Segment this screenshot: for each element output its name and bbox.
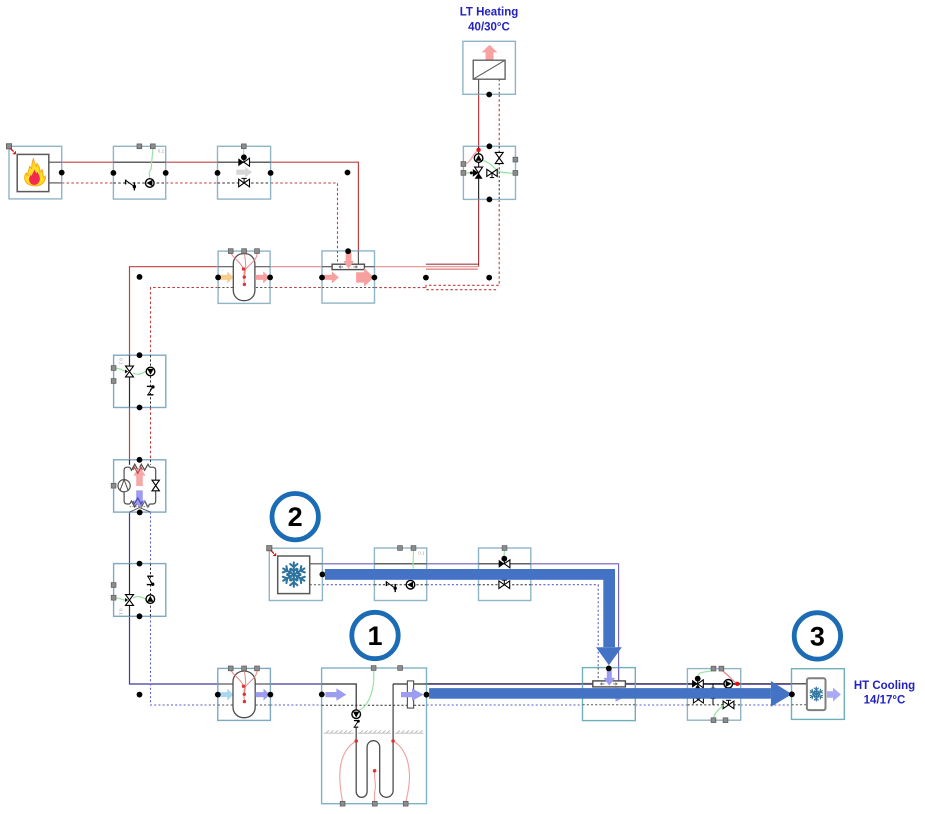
big pink outlet arrow	[356, 268, 374, 287]
thick chilled band horizontal (ground box to HT)	[429, 688, 771, 699]
boiler unit box	[9, 146, 62, 199]
flow switch on hot return	[147, 386, 154, 394]
wire: chiller return dashed valve box to drop into collector	[531, 585, 598, 668]
callout circle 1	[352, 612, 398, 658]
wire: chiller return dashed chiller to pump box	[322, 584, 374, 586]
big gray flow arrow	[236, 167, 252, 177]
wire: left riser supply between valve box and heat pump	[129, 408, 131, 460]
light blue inlet arrow	[219, 689, 233, 701]
HT snowflake	[809, 687, 823, 701]
tank sensor curves (red)	[231, 252, 257, 283]
node left of tank	[137, 274, 143, 280]
heat pump refrigerant loop	[124, 464, 156, 507]
chiller unit box	[269, 548, 322, 600]
bypass butterfly valve (LT)	[487, 169, 497, 177]
three-way mixing valve (LT supply)	[470, 167, 483, 179]
borehole U-tube	[356, 684, 393, 797]
green control squiggle top	[698, 670, 714, 679]
LT heating pink up arrow	[482, 45, 498, 60]
wire: LT supply horizontal pink run from distributor	[375, 266, 479, 268]
cold tank vessel	[233, 671, 255, 718]
cold buffer tank box	[218, 668, 271, 720]
violet flow arrow 2 (ground box out)	[401, 688, 424, 700]
pump P1 (boiler return, flow left)	[146, 179, 155, 188]
violet outlet arrow	[256, 689, 270, 701]
wire: bottom return dashed collector to valve box	[635, 704, 687, 706]
violet pass-through arrow (mostly hidden by band)	[600, 687, 630, 701]
cooling valve/pump group box	[687, 669, 740, 721]
thick chilled band horizontal (chiller to drop)	[325, 569, 615, 580]
cooling collector box	[583, 668, 636, 721]
balancing valve chilled return	[499, 580, 510, 588]
LT Heating consumer box	[463, 41, 516, 94]
svg-text:0.1: 0.1	[119, 609, 124, 616]
flow switch symbol (boiler return)	[126, 180, 135, 191]
distributor header bar	[332, 264, 364, 269]
svg-text:2: 2	[288, 502, 303, 532]
V connection to risers	[130, 508, 151, 512]
ground sensor dots	[354, 739, 358, 743]
nodes hot box top/bottom	[137, 352, 143, 358]
svg-text:1: 1	[367, 621, 382, 651]
thick band right arrowhead	[771, 681, 792, 707]
LT circulation pump (flow up)	[474, 154, 483, 163]
node under radiator	[486, 92, 492, 98]
T fitting mark lower	[711, 699, 715, 705]
green control squiggles LT box	[483, 161, 515, 174]
handle heat pump	[111, 483, 116, 488]
wire: tank to distributor supply	[270, 266, 322, 268]
nodes ground box edges	[319, 692, 325, 698]
control valve V1 (supply)	[238, 158, 249, 166]
nodes on LT feed run	[423, 275, 429, 281]
wire: chiller supply purple chiller to pump box	[322, 563, 374, 565]
node mid-run right of valve box	[345, 170, 351, 176]
three-way valve cooling supply	[692, 676, 703, 691]
callout circle 3	[794, 613, 840, 659]
handle chiller valve box	[502, 546, 507, 551]
flow switch chiller return	[386, 581, 395, 592]
node at right arrow tip	[789, 691, 795, 697]
control line to pump (green)	[149, 148, 153, 180]
node at boiler outlet	[59, 170, 65, 176]
heat pump top stubs	[129, 460, 131, 465]
defrost dotted mark	[130, 506, 150, 508]
ground loop pump (flow down)	[352, 710, 361, 719]
shutoff valve on LT return	[495, 152, 503, 163]
HT cooling consumer box	[792, 669, 845, 720]
nodes LT pump box	[487, 143, 493, 149]
wire: bottom supply tank to ground box	[270, 683, 321, 685]
LT pump group box	[463, 146, 515, 199]
cold tank sensor curves	[231, 670, 257, 701]
wire: chiller supply purple valve box to drop into collector	[531, 564, 619, 681]
small pink branch arrow	[324, 271, 339, 283]
control valve chilled supply	[499, 560, 510, 568]
svg-text:14/17°C: 14/17°C	[864, 695, 906, 707]
condenser arrow (pink up)	[133, 467, 145, 487]
boiler corner marker with red arrow	[6, 144, 16, 155]
inline measuring element	[407, 681, 413, 708]
bypass valve under band	[693, 695, 703, 703]
cold tank top handles	[228, 666, 233, 671]
wire: boiler return dashed valve box to drop, down into distributor	[271, 183, 338, 251]
wire: boiler return top row dashed (boiler to pump box)	[62, 182, 114, 184]
chiller valve group box	[479, 548, 531, 601]
green stub chiller control valve	[503, 549, 505, 559]
collector header bar	[593, 681, 626, 687]
handles left edge	[111, 366, 116, 371]
ground box top handles	[371, 666, 376, 671]
wire: chiller return dashed pump box to valve box	[427, 584, 479, 586]
nodes at pump box edges	[111, 170, 117, 176]
violet feed arrow into collector	[603, 670, 615, 686]
soil hatch lines	[324, 730, 424, 733]
wire: boiler return dashed (pump box to valve box)	[166, 182, 218, 184]
handle on valve box	[241, 144, 246, 149]
handles chiller pump box	[398, 546, 403, 551]
wire: boiler supply between pump and valve boxes	[166, 161, 218, 163]
wire: chilled supply purple run ground box to collector	[427, 684, 593, 686]
wire: cold return dashed corner to bottom tank	[151, 616, 218, 705]
nodes cold tank edges	[215, 692, 221, 698]
wire: bottom return dashed ground box to collector	[427, 704, 583, 706]
wire: LT return drop dashed	[426, 199, 499, 285]
pump on cold return (flow up)	[146, 595, 155, 604]
wire: LT supply second pink run	[426, 268, 478, 270]
violet flow arrow 1 (ground box in)	[325, 688, 346, 700]
node at arrow tip on collector	[606, 666, 612, 672]
svg-text:0.1: 0.1	[158, 149, 165, 154]
flow switch cold return	[147, 576, 154, 584]
pump on hot return (flow down)	[146, 367, 155, 376]
pink control squiggle	[463, 151, 478, 165]
valve group box (boiler circuit)	[218, 146, 271, 199]
expansion valve	[152, 480, 159, 491]
hot buffer tank box	[218, 251, 270, 303]
hot tank vessel	[233, 254, 255, 301]
nodes heat pump top/bottom	[137, 457, 143, 463]
evaporator arrow (violet down)	[133, 490, 145, 507]
wire: boiler supply valve box to drop corner, down into distributor	[271, 162, 359, 251]
chiller corner marker with red arrow	[267, 546, 277, 557]
heating distributor box	[322, 251, 375, 303]
heat pump box	[114, 460, 166, 512]
nodes at distributor edges	[319, 275, 325, 281]
wire: boiler supply top row (hot, red)	[62, 161, 114, 163]
svg-text:0.1: 0.1	[418, 550, 425, 555]
wire: hot return tank to left riser corner dashed	[151, 288, 219, 356]
pink feed arrow into distributor	[343, 252, 354, 269]
green control squiggle bottom	[714, 705, 724, 719]
wire: cold return dashed heat pump to lower box	[150, 512, 152, 564]
chiller pump group box	[374, 548, 426, 601]
radiator symbol	[473, 60, 505, 79]
wire: LT supply horizontal dark upper run	[426, 263, 479, 265]
wire: chilled supply purple run collector to HT box	[625, 684, 791, 686]
wire: cold supply heat pump down to lower box (navy)	[129, 512, 131, 564]
wire: LT heating supply drop (pump group down to header level)	[478, 199, 480, 266]
cold side valve/pump box	[114, 564, 166, 617]
wire: LT return dashed to distributor	[375, 287, 426, 289]
callout circle 2	[272, 494, 318, 540]
red node on LT supply	[476, 148, 480, 152]
nodes cold box	[137, 561, 143, 567]
wire: cold supply down-left corner to bottom tank	[130, 616, 218, 684]
wire: left riser return dashed between valve box and heat pump	[150, 408, 152, 460]
red control squiggle to pump	[721, 670, 737, 684]
thick chilled band vertical drop	[603, 569, 615, 647]
orange inlet arrow	[219, 271, 233, 283]
ground box bottom handles	[340, 801, 345, 806]
node at chiller outlet	[320, 572, 326, 578]
svg-text:HT Cooling: HT Cooling	[854, 680, 915, 692]
wire: LT return dashed lower duplicate	[426, 285, 498, 289]
node left of cold tank	[137, 692, 143, 698]
T fitting mark	[711, 684, 715, 688]
tank sensor dots	[242, 267, 245, 270]
chiller snowflake	[281, 562, 306, 586]
node above control valve	[241, 154, 247, 160]
green control drop chiller pump	[412, 549, 414, 568]
shutoff valve on hot supply riser	[125, 366, 133, 377]
wire: tank to distributor return dashed	[270, 287, 322, 289]
flow switch under ground pump	[354, 721, 359, 728]
thick band down arrowhead	[596, 647, 622, 665]
ground loop box	[322, 668, 427, 804]
HT violet outlet arrow	[827, 688, 841, 702]
red node at pump outlet	[735, 682, 739, 686]
wire: chilled supply gray run collector to HT unit	[625, 683, 807, 685]
pump chiller return (flow left)	[406, 580, 415, 589]
shutoff valve on cold supply	[125, 595, 133, 606]
node on distributor top	[345, 248, 351, 254]
balancing valve (boiler return)	[239, 178, 250, 186]
cold tank sensor dots	[242, 685, 245, 688]
condenser zigzag overlay	[133, 467, 143, 473]
green stub to control valve	[243, 148, 245, 158]
green control line hot box	[114, 368, 147, 374]
svg-text:3: 3	[810, 621, 825, 651]
wire: bottom return dashed valve box to HT box	[741, 704, 792, 706]
balancing valve cooling return	[723, 700, 734, 708]
compressor	[118, 480, 130, 492]
handles on LT pump box	[461, 162, 466, 167]
boiler flame icon	[25, 158, 46, 186]
pump group box (boiler circuit)	[113, 146, 165, 199]
wire: chiller supply purple pump box to valve box	[427, 563, 479, 565]
wire: LT heating return riser dashed (radiator to pump group)	[498, 94, 500, 146]
cooling pump (flow right)	[724, 680, 733, 689]
svg-text:0.1: 0.1	[119, 358, 124, 365]
wire: bottom return dashed tank to ground box	[270, 704, 321, 706]
handles cold box	[111, 583, 116, 588]
nodes at tank edges	[215, 275, 221, 281]
svg-text:LT Heating: LT Heating	[460, 7, 519, 19]
svg-text:40/30°C: 40/30°C	[468, 22, 510, 34]
ground sensor curves	[340, 742, 410, 802]
wire: LT heating supply riser (radiator to pump group)	[478, 94, 480, 146]
handles cooling valve box	[711, 666, 716, 671]
nodes at valve box edges	[215, 170, 221, 176]
heat pump valve/pump box (hot side)	[114, 355, 166, 407]
pink outlet arrow	[255, 271, 270, 283]
wire: chilled supply gray run ground box to collector	[427, 683, 593, 685]
wire: hot supply tank to left riser corner	[130, 267, 219, 356]
green control curve to ground pump	[359, 669, 374, 710]
handle squares on pump box	[137, 144, 142, 149]
tank top handles	[228, 249, 233, 254]
green control line cold box	[114, 597, 147, 601]
evaporator zigzag overlay	[133, 498, 143, 504]
